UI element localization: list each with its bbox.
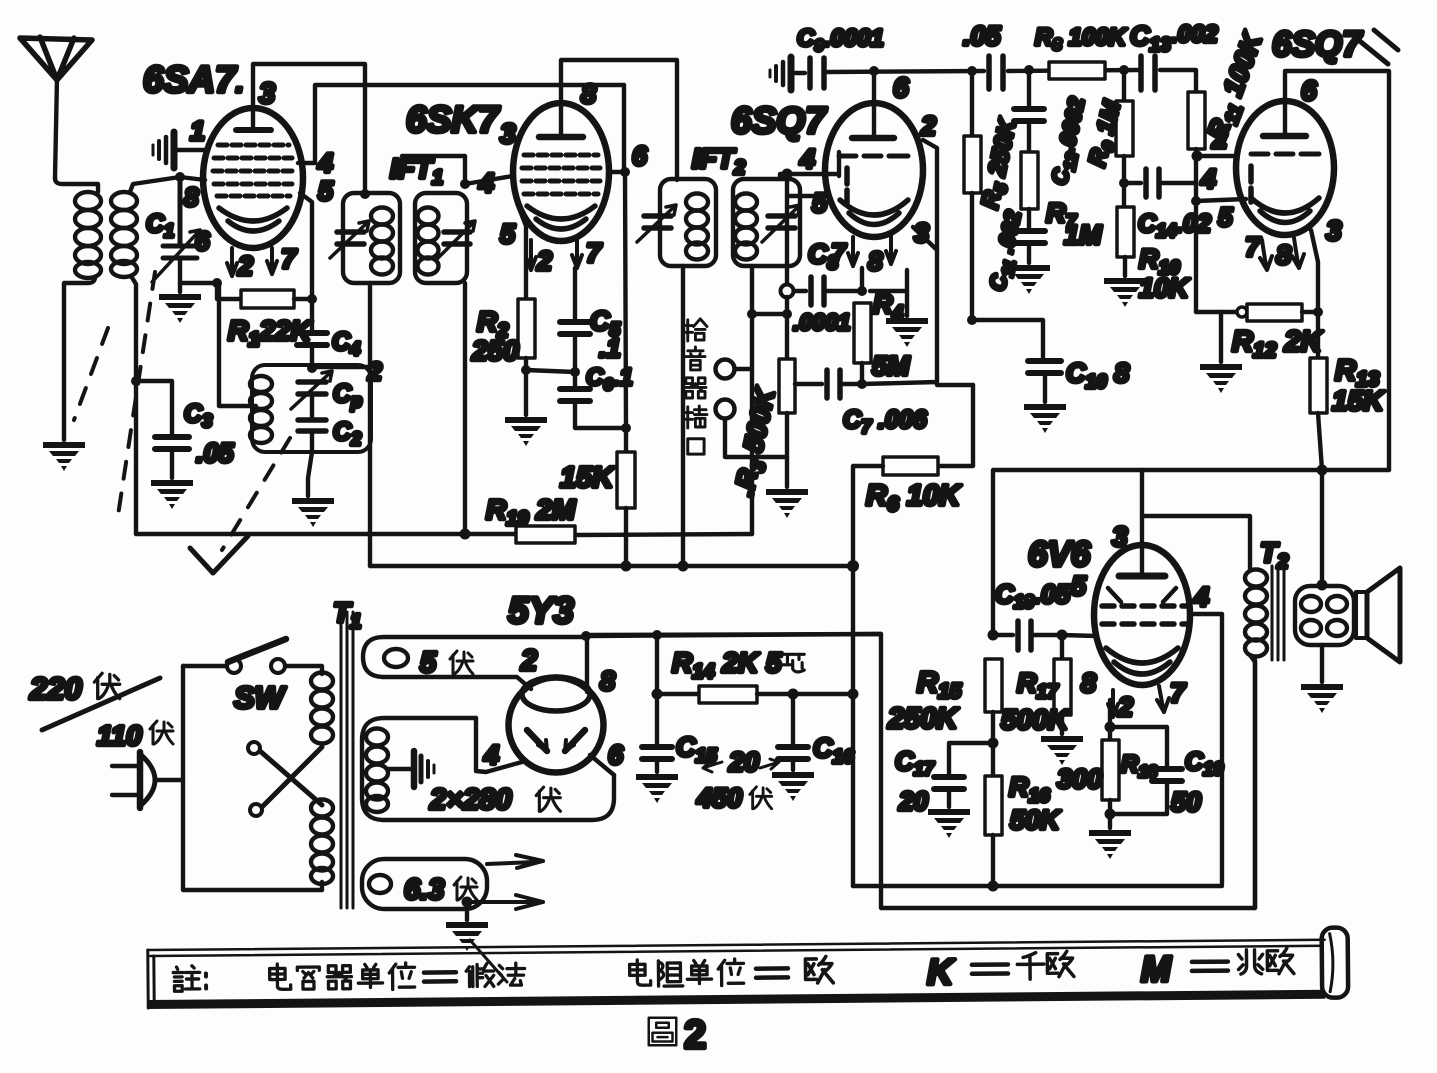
svg-text:7: 7 bbox=[281, 244, 298, 274]
capacitor C12 .0002 bbox=[1014, 65, 1044, 152]
resistor R13 15K bbox=[1310, 312, 1327, 585]
tube 5Y3 bbox=[509, 677, 604, 773]
HV winding box bbox=[362, 718, 614, 820]
wire R5 to C10 bbox=[972, 320, 1043, 358]
capacitor C8 bbox=[794, 277, 862, 305]
node R4 top bbox=[857, 286, 867, 296]
pin 4 wire bbox=[476, 718, 522, 772]
capacitor .05 coupling bbox=[989, 56, 1003, 89]
wire R2 to C5/C6 bbox=[526, 370, 575, 372]
IFT1 secondary tuning cap bbox=[438, 221, 475, 258]
B+ rail top of output stage bbox=[993, 470, 1389, 635]
svg-text:4: 4 bbox=[1193, 582, 1209, 612]
pin 8 wire plate to IFT2 bbox=[561, 60, 677, 180]
grid cap pin 1 shield bbox=[153, 132, 207, 168]
svg-text:450: 450 bbox=[696, 783, 742, 813]
tube 6SQ7 output bbox=[1236, 101, 1334, 235]
IFT1 primary box bbox=[343, 193, 400, 283]
tube 6SA7 bbox=[203, 108, 303, 248]
capacitor C1 (variable tuning) bbox=[152, 177, 200, 292]
coil L2 secondary bbox=[111, 192, 137, 277]
pin 7 arrow bbox=[1260, 240, 1272, 270]
svg-text:500K: 500K bbox=[1001, 704, 1070, 735]
node IFT1 top bbox=[360, 189, 370, 199]
svg-text:.0001: .0001 bbox=[793, 309, 851, 335]
pin 2 arrow bbox=[1108, 690, 1118, 717]
svg-text:20: 20 bbox=[728, 747, 759, 777]
capacitor C2 bbox=[298, 420, 326, 431]
svg-text:M: M bbox=[1141, 948, 1172, 989]
oscillator coil box bbox=[252, 365, 371, 452]
ground under C11 bbox=[1008, 265, 1050, 294]
svg-text:R19 2M: R19 2M bbox=[486, 494, 576, 530]
svg-text:C9.0001: C9.0001 bbox=[797, 25, 884, 55]
svg-text:2: 2 bbox=[536, 246, 552, 276]
capacitor C18 .05 bbox=[988, 621, 1097, 650]
stray scan line bbox=[470, 940, 507, 982]
wire plate line pin2 bbox=[862, 140, 973, 385]
5V label bbox=[420, 647, 473, 679]
node C3 tap bbox=[131, 376, 141, 386]
pin 5 wire down bbox=[300, 193, 312, 299]
CJK watt label bbox=[782, 654, 804, 672]
pin 3 plate riser bbox=[1140, 470, 1144, 576]
pin 5 wire to R2 bbox=[519, 208, 526, 299]
dashed gang lines bbox=[74, 272, 290, 550]
2x280V label bbox=[429, 784, 560, 816]
svg-text:.1: .1 bbox=[599, 333, 621, 363]
capacitor C6 bbox=[560, 372, 626, 428]
wire to R12 bbox=[1196, 310, 1242, 314]
tube 6V6 bbox=[1094, 545, 1190, 685]
note text: M = mega-ohm bbox=[1141, 947, 1294, 989]
ground under speaker bbox=[1301, 684, 1343, 713]
jack terminal lower bbox=[716, 400, 735, 419]
svg-text:8: 8 bbox=[581, 79, 596, 109]
HV center tap ground bbox=[388, 751, 434, 787]
output stage box left bbox=[588, 634, 881, 886]
resistor R12 2K bbox=[1237, 304, 1318, 321]
wire screen rail down bbox=[624, 85, 626, 452]
svg-text:7: 7 bbox=[1245, 232, 1262, 262]
tube 6SK7 bbox=[513, 103, 609, 241]
wire osc top to B line bbox=[312, 365, 370, 369]
svg-text:5: 5 bbox=[318, 176, 334, 206]
450V label bbox=[696, 783, 772, 813]
transformer T1 core bbox=[341, 612, 353, 908]
svg-text:220: 220 bbox=[29, 671, 82, 706]
jack terminal upper bbox=[716, 360, 735, 379]
ground under C1 bbox=[159, 294, 201, 323]
wire IFT1 sec bottom to AVC bbox=[463, 283, 467, 534]
pickup jack label (vertical CJK) bbox=[684, 319, 707, 454]
svg-text:6SQ7: 6SQ7 bbox=[1272, 25, 1363, 64]
ground under C16 bbox=[772, 772, 814, 801]
wire antenna to coil bbox=[55, 178, 98, 192]
pin 7 arrow bbox=[572, 240, 582, 268]
ground under osc bbox=[292, 498, 334, 527]
pin 8 arrow bbox=[886, 235, 896, 264]
resistor R2 250 bbox=[518, 299, 535, 415]
6.3V winding box bbox=[362, 859, 487, 909]
gang check mark bbox=[190, 536, 248, 573]
resistor R6 10K bbox=[853, 385, 973, 566]
pin 7 arrow bbox=[848, 237, 858, 266]
capacitor C5 bbox=[560, 268, 590, 372]
capacitor C16 bbox=[778, 694, 808, 770]
wire coil to ground bbox=[64, 277, 95, 440]
pin 3 stub bbox=[913, 227, 937, 250]
note bar bbox=[148, 928, 1349, 1009]
svg-text:20: 20 bbox=[898, 786, 928, 816]
oscillator coil bbox=[250, 376, 272, 443]
ground under grid return bbox=[1200, 364, 1242, 393]
svg-text:6SQ7: 6SQ7 bbox=[731, 100, 828, 141]
wire T2 primary bottom bbox=[1250, 655, 1255, 908]
stray mark bbox=[1356, 30, 1398, 64]
ground under C17 bbox=[928, 809, 970, 838]
svg-text:6.3: 6.3 bbox=[404, 874, 444, 906]
T1 primary coil lower bbox=[311, 800, 333, 885]
ground detector cathode bbox=[886, 318, 928, 347]
wire plug riser bbox=[183, 666, 322, 890]
grid/diode return vertical bbox=[785, 174, 789, 285]
speaker bbox=[1356, 568, 1400, 662]
wire grid return bbox=[1194, 156, 1198, 312]
IFT1 secondary box bbox=[415, 193, 467, 283]
ground under R18 bbox=[1089, 830, 1131, 859]
node grid junction bbox=[175, 172, 185, 182]
svg-text:R6 10K: R6 10K bbox=[866, 480, 962, 516]
svg-text:.05: .05 bbox=[196, 438, 235, 468]
wire tap to volume bbox=[752, 312, 787, 316]
ground under R10 bbox=[1104, 278, 1146, 307]
6.3V label bbox=[404, 874, 477, 906]
capacitor C14 .02 bbox=[1119, 169, 1196, 197]
wire jack lower to R3 bbox=[725, 419, 787, 457]
cathode node bbox=[1108, 700, 1112, 740]
svg-text:C7 .006: C7 .006 bbox=[843, 406, 928, 437]
heater arrow upper bbox=[487, 855, 543, 868]
wire to cathode ground bbox=[870, 270, 907, 316]
note text: K = kilo-ohm bbox=[927, 950, 1074, 992]
resistor R15 250K bbox=[985, 659, 1002, 776]
capacitor C17 20 bbox=[934, 743, 993, 807]
svg-text:8: 8 bbox=[1081, 668, 1096, 698]
svg-text:2: 2 bbox=[1117, 692, 1133, 722]
ground under C10 bbox=[1024, 404, 1066, 433]
5V winding box bbox=[363, 637, 588, 689]
IFT2 secondary tuning cap bbox=[762, 205, 800, 242]
svg-text:300: 300 bbox=[1057, 764, 1102, 794]
IFT1 primary tuning cap bbox=[330, 221, 369, 258]
AVC line bbox=[136, 534, 752, 535]
resistor R18 300 bbox=[1102, 740, 1119, 814]
svg-text:5: 5 bbox=[500, 219, 516, 249]
note text: resistor unit = ohm bbox=[630, 956, 834, 986]
svg-text:250K: 250K bbox=[887, 703, 959, 735]
svg-text:3: 3 bbox=[259, 78, 275, 110]
resistor R17 500K bbox=[1054, 635, 1071, 734]
pin 7 arrow bbox=[267, 248, 277, 274]
svg-text:3: 3 bbox=[1326, 215, 1342, 246]
capacitor C9 .0001 bbox=[795, 58, 824, 88]
capacitor C13 .002 bbox=[1141, 56, 1155, 90]
svg-text:3: 3 bbox=[500, 118, 516, 149]
svg-text:K: K bbox=[927, 951, 956, 992]
110V label bbox=[97, 720, 173, 751]
svg-text:15K: 15K bbox=[1332, 385, 1385, 416]
ground under L1 bbox=[43, 442, 85, 471]
svg-text:6V6: 6V6 bbox=[1028, 535, 1091, 574]
pin 8 wire bbox=[585, 636, 589, 692]
wire osc tap to grid bbox=[219, 284, 256, 406]
svg-text:2: 2 bbox=[1211, 123, 1228, 154]
resistor R5 250K bbox=[964, 66, 981, 320]
svg-text:8: 8 bbox=[184, 182, 199, 212]
IFT2 secondary box bbox=[733, 179, 800, 266]
svg-text:1M: 1M bbox=[1064, 220, 1102, 250]
svg-text:6: 6 bbox=[893, 72, 909, 103]
svg-text:2: 2 bbox=[520, 645, 537, 677]
IFT2 primary tuning cap bbox=[637, 205, 676, 242]
svg-text:50: 50 bbox=[1171, 787, 1201, 817]
svg-text:6: 6 bbox=[195, 226, 210, 256]
T2 secondary loops bbox=[1301, 596, 1347, 636]
svg-text:2×280: 2×280 bbox=[429, 784, 511, 816]
svg-text:5M: 5M bbox=[872, 351, 910, 381]
ground under R17 bbox=[1041, 736, 1083, 765]
svg-text:6: 6 bbox=[608, 740, 624, 770]
pointer arrows bbox=[703, 759, 779, 772]
capacitor C10 8 bbox=[1028, 361, 1061, 402]
wire jack upper bbox=[735, 367, 752, 371]
svg-text:2: 2 bbox=[920, 111, 936, 141]
svg-text:250: 250 bbox=[471, 335, 519, 366]
pin 6 wire bbox=[590, 755, 614, 775]
pin 6 wire bbox=[609, 170, 625, 174]
svg-text:50K: 50K bbox=[1010, 805, 1062, 835]
svg-text:2: 2 bbox=[237, 251, 253, 281]
svg-text:7: 7 bbox=[586, 238, 603, 268]
resistor R7 1M bbox=[1021, 152, 1038, 228]
heater arrow lower bbox=[467, 895, 543, 909]
svg-text:5: 5 bbox=[812, 188, 828, 218]
antenna bbox=[20, 37, 92, 178]
voltage selector cross bbox=[248, 742, 322, 816]
svg-text:.05: .05 bbox=[963, 21, 1002, 51]
svg-text:3: 3 bbox=[914, 218, 929, 248]
capacitor C3 bbox=[136, 381, 189, 478]
resistor 15K bbox=[617, 452, 635, 567]
wire R11 to grid 6SQ7 bbox=[1197, 154, 1236, 158]
svg-text:8: 8 bbox=[868, 246, 883, 276]
ground heater bbox=[446, 922, 488, 951]
AF plate rail bbox=[827, 70, 1196, 92]
volume pot R3 500K bbox=[779, 297, 795, 487]
wire filter tap bbox=[655, 635, 659, 694]
ground under C3 bbox=[151, 480, 193, 509]
T2 secondary box bbox=[1295, 586, 1354, 645]
svg-text:3: 3 bbox=[1112, 521, 1128, 552]
resistor R8 100K bbox=[1049, 62, 1105, 79]
wire IFT1 primary bottom to B+ bus bbox=[368, 283, 372, 566]
screen feed vertical bbox=[851, 566, 855, 886]
capacitor C11 .002 bbox=[1015, 231, 1045, 263]
pin 5 stub bbox=[788, 194, 826, 198]
capacitor C7 .006 bbox=[795, 370, 862, 398]
resistor R10 10K bbox=[1117, 207, 1134, 276]
svg-text:SW: SW bbox=[234, 680, 287, 715]
wire IFT2 primary bottom to bus bbox=[681, 266, 685, 566]
pin 4 wire to screen rail bbox=[298, 85, 624, 163]
ground stem bbox=[1219, 312, 1223, 362]
svg-text:6: 6 bbox=[1301, 75, 1317, 106]
svg-text:4: 4 bbox=[478, 168, 494, 198]
capacitor C19 50 bbox=[1110, 727, 1182, 814]
svg-text:5Y3: 5Y3 bbox=[508, 590, 574, 631]
IFT1 primary coil bbox=[371, 208, 393, 275]
wire L2 top to node bbox=[130, 177, 180, 192]
resistor R14 2K 5W bbox=[657, 686, 853, 703]
pin 2 arrow bbox=[227, 248, 237, 276]
svg-text:4: 4 bbox=[1200, 164, 1216, 194]
wire IFT2 sec top to 6SQ7 grid bbox=[780, 152, 839, 179]
svg-text:4: 4 bbox=[799, 144, 815, 174]
resistor R16 50K bbox=[985, 776, 1002, 886]
svg-text:4: 4 bbox=[483, 740, 499, 770]
switch SW bbox=[183, 639, 322, 674]
pin 4 wire bbox=[1190, 614, 1222, 884]
wire node to tube bbox=[180, 177, 205, 180]
bottom line inner bbox=[853, 884, 1222, 888]
svg-text:6SA7.: 6SA7. bbox=[143, 59, 244, 100]
pin 3 stub bbox=[1311, 230, 1318, 312]
pin 8 arrow bbox=[1292, 238, 1304, 268]
svg-text:.002: .002 bbox=[1171, 21, 1218, 48]
svg-text:6: 6 bbox=[632, 141, 648, 171]
pin 6 riser and plate rail right bbox=[1285, 71, 1389, 470]
resistor R4 5M bbox=[854, 303, 871, 383]
bottom line outer bbox=[881, 660, 1255, 908]
svg-text:5: 5 bbox=[1218, 202, 1233, 232]
svg-text:110: 110 bbox=[97, 720, 142, 751]
ground under C15 bbox=[636, 774, 678, 803]
svg-text:1: 1 bbox=[190, 116, 205, 146]
svg-text:8: 8 bbox=[1276, 240, 1291, 270]
capacitor C15 bbox=[642, 694, 672, 772]
svg-text:2: 2 bbox=[684, 1013, 706, 1057]
resistor R11 100K bbox=[1188, 92, 1205, 156]
svg-text:15K: 15K bbox=[560, 462, 615, 494]
tube 6SQ7 detector bbox=[825, 103, 923, 237]
resistor R19 2M bbox=[516, 526, 575, 543]
resistor R9 1M bbox=[1116, 65, 1133, 207]
node osc top bbox=[307, 363, 317, 373]
tap slash bbox=[42, 678, 160, 730]
resistor R1 22K bbox=[180, 283, 312, 308]
svg-text:7: 7 bbox=[1170, 678, 1187, 708]
terminal ring C8 node bbox=[781, 285, 794, 298]
transformer T2 core bbox=[1272, 566, 1284, 660]
svg-text:5: 5 bbox=[420, 647, 437, 679]
coil L1 primary bbox=[75, 192, 101, 278]
svg-text:R8 100K: R8 100K bbox=[1035, 24, 1128, 54]
svg-text:10K: 10K bbox=[1139, 273, 1191, 303]
T1 primary coil upper bbox=[311, 673, 333, 744]
svg-text:8: 8 bbox=[600, 666, 615, 696]
IFT2 primary coil bbox=[686, 194, 708, 260]
wire heater ground bbox=[465, 902, 469, 920]
IFT2 primary box bbox=[660, 179, 716, 266]
IFT1 secondary coil bbox=[418, 208, 439, 275]
svg-text:4: 4 bbox=[317, 148, 333, 178]
pin 6 plate riser bbox=[872, 71, 876, 138]
pin 7 arrow bbox=[1157, 686, 1169, 712]
ground under R2 bbox=[505, 417, 547, 446]
note text: capacitor unit = microfarad bbox=[173, 962, 525, 991]
capacitor Cp (variable padder) bbox=[291, 371, 332, 409]
svg-text:R14 2K 5: R14 2K 5 bbox=[672, 647, 782, 683]
pin 2 arrow bbox=[526, 240, 536, 270]
B+ bus bbox=[370, 564, 853, 568]
ground under R3 bbox=[766, 489, 808, 518]
svg-text:6SK7: 6SK7 bbox=[406, 99, 501, 140]
IFT2 secondary coil bbox=[735, 194, 757, 260]
caption figure 2 bbox=[649, 1013, 707, 1057]
wire plate to T2 bbox=[1142, 516, 1250, 570]
rectifier output line bbox=[588, 634, 881, 636]
capacitor C4 bbox=[297, 299, 327, 368]
wire voice coil to ground bbox=[1320, 645, 1324, 682]
power plug bbox=[112, 752, 183, 808]
220V label bbox=[29, 671, 120, 706]
wire L2 bottom down AVC bbox=[131, 276, 136, 534]
pin 3 wire to IFT1 top bbox=[253, 64, 365, 193]
wire cathode ground bbox=[1108, 814, 1112, 828]
svg-text:5: 5 bbox=[1071, 571, 1087, 601]
grid cap shield C9 input bbox=[770, 57, 791, 90]
T2 primary coil bbox=[1245, 570, 1267, 657]
wire IFT2 sec bottom bbox=[750, 266, 754, 534]
wire IFT1 sec top to 6SK7 grid bbox=[402, 156, 513, 184]
